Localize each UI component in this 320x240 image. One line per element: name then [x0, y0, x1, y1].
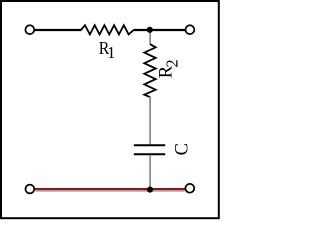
node A (top junction dot): [147, 27, 153, 33]
resistor R1 (horizontal zigzag): [81, 25, 134, 34]
terminal T4 (bottom-right): [185, 184, 194, 193]
resistor R2 (vertical zigzag): [144, 44, 155, 97]
svg-text:C: C: [172, 143, 192, 155]
border frame: [1, 1, 219, 218]
svg-text:2: 2: [163, 59, 182, 67]
wire (bottom rail, dark red): [35, 188, 186, 190]
wire (capacitor down to node B): [149, 155, 151, 188]
wire (top rail, left circle to R1): [35, 29, 82, 31]
capacitor C bottom plate: [134, 153, 165, 155]
terminal T1 (top-left): [25, 25, 34, 34]
capacitor C top plate: [134, 144, 165, 146]
wire (node A down to R2): [149, 31, 151, 45]
terminal T2 (top-right): [186, 25, 195, 34]
svg-text:1: 1: [107, 43, 116, 62]
wire (R2 down to capacitor C): [149, 97, 151, 145]
gray shadow line under bottom rail: [36, 190, 185, 192]
wire (R1 to node A to top-right circle): [133, 29, 185, 31]
terminal T3 (bottom-left): [25, 185, 34, 194]
node B (bottom junction dot): [147, 187, 153, 193]
